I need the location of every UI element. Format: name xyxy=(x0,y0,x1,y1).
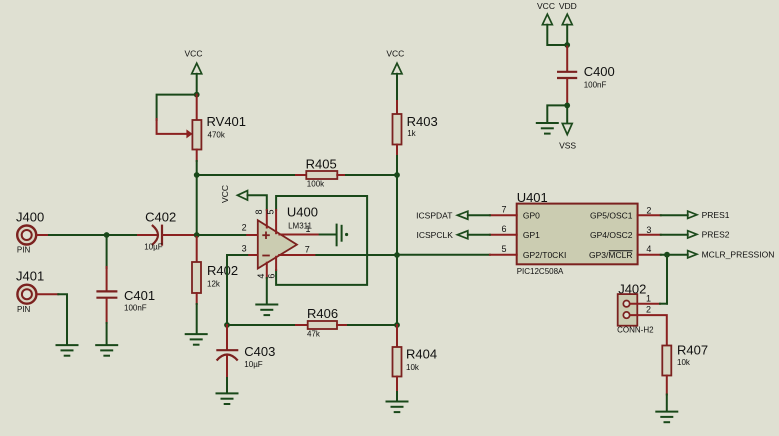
wire R405 row left xyxy=(197,174,296,176)
wire RV401 wiper lead xyxy=(157,119,186,134)
IC U401 pin 6 lead (GP1) xyxy=(490,234,517,236)
svg-text:VCC: VCC xyxy=(220,185,230,203)
svg-text:VCC: VCC xyxy=(386,48,404,58)
capacitor C400 value 100nF xyxy=(584,81,607,90)
terminal arrow ICSPDAT xyxy=(457,211,467,219)
node C402 output junction xyxy=(194,232,200,238)
resistor R403 body xyxy=(393,114,402,145)
resistor R405 label xyxy=(306,156,337,171)
svg-text:R403: R403 xyxy=(407,114,438,129)
svg-text:J400: J400 xyxy=(16,210,44,225)
wire output to column junction xyxy=(316,254,397,256)
wire VCC to pin 8 xyxy=(248,195,267,210)
power symbol VCC arrow (above R403) xyxy=(392,63,402,74)
IC U401 pin 5 lead (GP2) xyxy=(490,254,517,256)
capacitor C402 plates (polarized) xyxy=(152,225,162,246)
svg-text:R402: R402 xyxy=(207,263,238,278)
resistor R402 body xyxy=(192,262,201,293)
capacitor C401 plates xyxy=(96,291,117,297)
node C403 junction xyxy=(224,322,230,328)
svg-text:2: 2 xyxy=(646,205,651,215)
svg-text:4: 4 xyxy=(256,274,266,279)
svg-text:C400: C400 xyxy=(584,64,615,79)
svg-text:GP5/OSC1: GP5/OSC1 xyxy=(590,210,633,220)
resistor R406 body xyxy=(308,321,337,329)
wire R407 to ground xyxy=(666,395,668,412)
svg-text:ICSPCLK: ICSPCLK xyxy=(417,230,454,240)
op-amp pin 8 lead xyxy=(266,210,268,228)
power label VCC (above RV401) xyxy=(185,48,203,58)
svg-text:C403: C403 xyxy=(244,344,275,359)
capacitor C401 label xyxy=(124,288,155,303)
resistor R407 body xyxy=(662,346,671,376)
IC U401 pin name GP3/MCLR xyxy=(589,250,632,260)
ground (R407) xyxy=(656,412,677,423)
wire VCC stem to R403 xyxy=(396,74,398,101)
wire R402 to ground xyxy=(196,304,198,334)
svg-text:GP4/OSC2: GP4/OSC2 xyxy=(590,230,633,240)
svg-text:470k: 470k xyxy=(208,130,226,139)
svg-text:VSS: VSS xyxy=(559,141,576,151)
op-amp pin 3 lead xyxy=(247,254,257,256)
ground (R402) xyxy=(186,334,207,345)
terminal arrow PRES1 xyxy=(688,211,697,218)
svg-text:PIN: PIN xyxy=(17,246,31,255)
IC U401 pin 4 lead (GP3) xyxy=(638,254,661,256)
svg-text:10k: 10k xyxy=(406,363,420,372)
terminal label PRES1 xyxy=(702,210,730,220)
svg-text:5: 5 xyxy=(501,244,506,254)
capacitor C402 left lead xyxy=(138,234,156,236)
connector J402 sublabel CONN-H2 xyxy=(617,326,654,335)
wire output junction to U401 GP2 xyxy=(397,254,490,256)
power symbol VCC arrow (above RV401) xyxy=(192,63,202,74)
pin number 2 xyxy=(646,205,651,215)
svg-text:J401: J401 xyxy=(16,269,44,284)
ground (C401) xyxy=(96,345,117,356)
ground (top right) xyxy=(537,123,558,134)
svg-text:R404: R404 xyxy=(406,346,437,361)
svg-text:ICSPDAT: ICSPDAT xyxy=(416,210,452,220)
IC U401 pin name GP4/OSC2 xyxy=(590,230,633,240)
svg-text:6: 6 xyxy=(501,224,506,234)
svg-text:VCC: VCC xyxy=(185,48,203,58)
pin number 3 xyxy=(646,225,651,235)
node MCLR junction xyxy=(664,252,670,258)
connector J402 pin 1 lead xyxy=(630,303,660,305)
pin number 4 (rotated) xyxy=(256,274,266,279)
capacitor C400 plates xyxy=(557,72,577,78)
power label VCC (above R403) xyxy=(386,48,404,58)
wire pin 1 to ground-pin icon xyxy=(320,234,336,236)
connector J401 pin rings xyxy=(17,285,36,304)
svg-text:8: 8 xyxy=(254,209,264,214)
svg-text:6: 6 xyxy=(266,274,276,279)
resistor R403 top lead xyxy=(396,101,398,114)
terminal label ICSPDAT xyxy=(416,210,452,220)
svg-text:100k: 100k xyxy=(307,180,325,189)
wire balance loop (pins 5-6) xyxy=(276,196,367,285)
node C401 junction xyxy=(104,232,110,238)
pin number 7 xyxy=(305,245,310,255)
resistor R405 body xyxy=(306,171,337,179)
connector J401 label xyxy=(16,269,44,284)
wire junction to ground branch xyxy=(547,105,567,122)
wire ICSPCLK to pin 6 xyxy=(468,234,490,236)
wire pin 2 from C402 node xyxy=(197,234,248,236)
connector J400 sublabel PIN xyxy=(17,246,31,255)
wire R403 column down to output row xyxy=(396,175,398,255)
svg-text:100nF: 100nF xyxy=(124,304,147,313)
potentiometer RV401 label xyxy=(207,114,247,129)
svg-text:12k: 12k xyxy=(207,279,221,288)
ground (C403) xyxy=(217,393,238,404)
op-amp pin 4 lead xyxy=(266,263,268,278)
pin number 6 (rotated) xyxy=(266,274,276,279)
resistor R402 value 12k xyxy=(207,279,221,288)
wire RV401 to node xyxy=(196,161,198,175)
wire column down to R406 row xyxy=(396,255,398,325)
wire C403 to ground xyxy=(226,378,228,393)
IC U401 pin 2 lead (GP5) xyxy=(638,214,661,216)
power symbol VDD arrow xyxy=(562,14,572,25)
svg-text:C401: C401 xyxy=(124,288,155,303)
power symbol VCC arrow (op-amp, left) xyxy=(237,191,247,200)
wire pin 1 to vertical xyxy=(660,303,667,305)
power label VCC (op-amp, rotated) xyxy=(220,185,230,203)
capacitor C400 bottom lead xyxy=(566,79,568,104)
resistor R407 bottom lead xyxy=(666,376,668,395)
svg-text:3: 3 xyxy=(242,244,247,254)
resistor R404 body xyxy=(393,347,402,377)
wire RV401 wiper loop xyxy=(157,95,197,120)
capacitor C402 value 10uF xyxy=(144,242,163,251)
op-amp U400 label xyxy=(287,204,318,219)
pin number 2 xyxy=(646,305,651,315)
svg-text:R407: R407 xyxy=(677,343,708,358)
capacitor C403 value 10uF xyxy=(244,360,263,369)
power label VDD (top right) xyxy=(559,1,577,11)
svg-text:47k: 47k xyxy=(307,330,321,339)
terminal label ICSPCLK xyxy=(417,230,454,240)
wire VCC stem to RV401 node xyxy=(196,74,198,95)
terminal arrow MCLR_PRESSION xyxy=(688,251,697,258)
svg-text:GP2/T0CKI: GP2/T0CKI xyxy=(523,250,566,260)
node R405 right junction xyxy=(394,172,400,178)
node C400 bottom junction xyxy=(564,103,570,109)
capacitor C403 label xyxy=(244,344,275,359)
svg-text:PRES2: PRES2 xyxy=(702,230,730,240)
capacitor C401 top lead xyxy=(106,267,108,291)
IC U401 pin 3 lead (GP4) xyxy=(638,234,661,236)
op-amp U400 plus marking xyxy=(262,232,270,240)
resistor R404 label xyxy=(406,346,437,361)
IC U401 pin 7 lead (GP0) xyxy=(490,214,517,216)
resistor R407 value 10k xyxy=(677,358,691,367)
ground (op-amp) xyxy=(256,305,277,316)
svg-text:10µF: 10µF xyxy=(144,242,163,251)
capacitor C403 plates (polarized) xyxy=(216,350,238,360)
potentiometer RV401 top lead xyxy=(196,95,198,120)
wire R405 to R403 column xyxy=(346,174,397,176)
IC U401 pin name GP2/T0CKI xyxy=(523,250,566,260)
op-amp pin 7 output lead xyxy=(279,254,316,256)
pin number 5 (rotated) xyxy=(265,209,275,214)
IC U401 body PIC12C508A xyxy=(517,204,638,265)
svg-text:2: 2 xyxy=(242,223,247,233)
svg-text:R406: R406 xyxy=(307,306,338,321)
capacitor C403 top lead xyxy=(226,325,228,350)
svg-text:R405: R405 xyxy=(306,156,337,171)
IC U401 pin name GP0 xyxy=(523,210,540,220)
resistor R406 right lead xyxy=(337,324,348,326)
pin number 3 xyxy=(242,244,247,254)
ground (J401) xyxy=(57,345,78,356)
op-amp ground-pin icon xyxy=(337,225,349,246)
op-amp U400 triangle body xyxy=(258,220,297,268)
resistor R403 bottom lead xyxy=(396,145,398,157)
op-amp U400 minus marking xyxy=(262,255,270,257)
wire pin 2 to PRES1 arrow xyxy=(661,214,688,216)
connector J402 pin 2 lead xyxy=(630,315,667,347)
pin number 4 xyxy=(646,244,651,254)
wire J400 to C402 xyxy=(49,234,143,236)
wire MCLR junction down to J402 pin 1 xyxy=(666,255,668,304)
op-amp pin 5 lead xyxy=(275,210,277,233)
resistor R403 label xyxy=(407,114,438,129)
capacitor C402 label xyxy=(145,210,176,225)
svg-text:3: 3 xyxy=(646,225,651,235)
connector J400 pin rings xyxy=(17,226,36,245)
svg-text:VDD: VDD xyxy=(559,1,577,11)
svg-text:PRES1: PRES1 xyxy=(702,210,730,220)
pin number 6 xyxy=(501,224,506,234)
resistor R402 bottom lead xyxy=(196,293,198,304)
svg-text:10µF: 10µF xyxy=(244,360,263,369)
pin number 2 xyxy=(242,223,247,233)
potentiometer RV401 body xyxy=(192,120,201,150)
node R405 left junction xyxy=(194,172,200,178)
svg-text:100nF: 100nF xyxy=(584,81,607,90)
power label VCC (top right) xyxy=(537,1,555,11)
resistor R405 value 100k xyxy=(307,180,325,189)
svg-text:7: 7 xyxy=(305,245,310,255)
wire pin 4 to MCLR arrow xyxy=(661,254,688,256)
resistor R404 bottom lead xyxy=(396,377,398,393)
ground (R404) xyxy=(387,402,408,413)
potentiometer RV401 value 470k xyxy=(208,130,226,139)
capacitor C400 top lead xyxy=(566,47,568,71)
connector J400 lead xyxy=(37,234,49,236)
op-amp pin 2 lead xyxy=(247,234,257,236)
wire C403 node to R406 xyxy=(227,324,296,326)
wire ICSPDAT to pin 7 xyxy=(468,214,490,216)
pin number 7 xyxy=(501,204,506,214)
wire VDD stem xyxy=(566,25,568,47)
IC U401 label xyxy=(517,190,548,205)
svg-text:1k: 1k xyxy=(407,129,416,138)
svg-text:GP0: GP0 xyxy=(523,210,540,220)
capacitor C402 right lead xyxy=(163,234,197,236)
capacitor C400 label xyxy=(584,64,615,79)
svg-text:10k: 10k xyxy=(677,358,691,367)
op-amp pin 6 lead xyxy=(275,257,277,270)
node VCC/VDD junction xyxy=(564,42,570,48)
power label VSS xyxy=(559,141,576,151)
svg-text:GP3/MCLR: GP3/MCLR xyxy=(589,250,632,260)
resistor R406 label xyxy=(307,306,338,321)
connector J402 pin circles xyxy=(623,301,629,319)
connector J400 label xyxy=(16,210,44,225)
svg-text:MCLR_PRESSION: MCLR_PRESSION xyxy=(702,250,775,260)
wire junction to VSS xyxy=(566,105,568,123)
resistor R404 top lead xyxy=(396,325,398,347)
resistor R407 label xyxy=(677,343,708,358)
resistor R403 value 1k xyxy=(407,129,416,138)
pin number 1 xyxy=(646,293,651,303)
wire C401 to ground xyxy=(106,323,108,345)
terminal arrow PRES2 xyxy=(688,231,697,238)
capacitor C403 bottom lead xyxy=(226,356,228,379)
svg-text:PIN: PIN xyxy=(17,305,31,314)
node output row junction xyxy=(394,252,400,258)
connector J401 lead xyxy=(37,293,58,295)
terminal label MCLR_PRESSION xyxy=(702,250,775,260)
resistor R402 label xyxy=(207,263,238,278)
svg-text:PIC12C508A: PIC12C508A xyxy=(517,267,564,276)
pin number 8 (rotated) xyxy=(254,209,264,214)
node R406 right junction xyxy=(394,322,400,328)
IC U401 pin name GP5/OSC1 xyxy=(590,210,633,220)
svg-text:5: 5 xyxy=(265,209,275,214)
node RV401 top junction xyxy=(194,92,200,98)
svg-text:RV401: RV401 xyxy=(207,114,247,129)
svg-text:CONN-H2: CONN-H2 xyxy=(617,326,654,335)
terminal arrow ICSPCLK xyxy=(457,231,467,239)
wire R403 to row junction xyxy=(396,156,398,175)
op-amp U400 part number LM311 xyxy=(288,222,312,231)
resistor R404 value 10k xyxy=(406,363,420,372)
potentiometer RV401 wiper arrowhead xyxy=(186,129,192,138)
op-amp pin 1 lead xyxy=(279,234,319,236)
connector J402 label xyxy=(618,281,646,296)
svg-text:GP1: GP1 xyxy=(523,230,540,240)
resistor R402 top lead xyxy=(196,235,198,262)
wire pin 4 to ground xyxy=(266,278,268,304)
svg-text:VCC: VCC xyxy=(537,1,555,11)
svg-text:1: 1 xyxy=(305,224,310,234)
capacitor C401 bottom lead xyxy=(106,299,108,323)
potentiometer RV401 bottom lead xyxy=(196,150,198,162)
pin number 5 xyxy=(501,244,506,254)
wire J401 to ground xyxy=(58,294,67,345)
wire node down to C402 node xyxy=(196,175,198,235)
svg-text:7: 7 xyxy=(501,204,506,214)
svg-text:2: 2 xyxy=(646,305,651,315)
power symbol VCC arrow xyxy=(542,14,552,25)
connector J402 body xyxy=(618,294,638,326)
wire C401 top xyxy=(106,235,108,268)
svg-text:C402: C402 xyxy=(145,210,176,225)
wire pin 3 to PRES2 arrow xyxy=(661,234,688,236)
resistor R406 left lead xyxy=(296,324,308,326)
resistor R405 left lead xyxy=(296,174,306,176)
IC U401 pin name GP1 xyxy=(523,230,540,240)
svg-text:1: 1 xyxy=(646,293,651,303)
pin number 1 xyxy=(305,224,310,234)
capacitor C401 value 100nF xyxy=(124,304,147,313)
wire pin 3 to C403 node xyxy=(227,255,247,325)
resistor R405 right lead xyxy=(337,174,346,176)
terminal label PRES2 xyxy=(702,230,730,240)
IC U401 part number xyxy=(517,267,564,276)
wire VCC stem to junction xyxy=(547,25,567,45)
svg-text:U400: U400 xyxy=(287,204,318,219)
power symbol VSS arrow (down) xyxy=(562,124,572,135)
wire R406 to column xyxy=(348,324,397,326)
connector J401 sublabel PIN xyxy=(17,305,31,314)
resistor R406 value 47k xyxy=(307,330,321,339)
svg-text:4: 4 xyxy=(646,244,651,254)
wire R404 to ground xyxy=(396,392,398,401)
